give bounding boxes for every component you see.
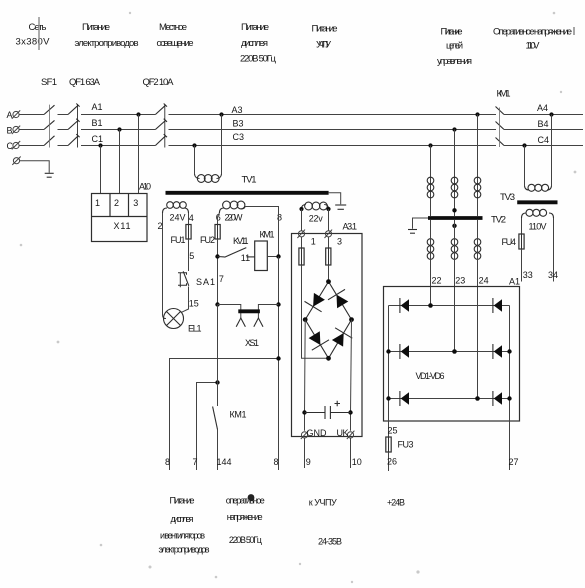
bridge node bottom [326,356,331,361]
wire 144 down [217,430,219,471]
node XS1 left [215,302,219,306]
diode VD5 [400,391,409,406]
node tap A to TV2 [475,112,479,116]
svg-text:КМ1: КМ1 [260,229,275,239]
fuse FU3 [386,437,391,452]
bridge diode bottom-right [332,333,344,347]
svg-text:220В 50Гц: 220В 50Гц [240,54,277,65]
node 22v right end [326,207,330,211]
wire core to ground [413,218,429,229]
svg-text:25: 25 [388,426,398,436]
TV2 secondary winding 2 [451,239,458,260]
transformer TV2 core [428,216,483,220]
svg-text:электроприводов: электроприводов [75,38,139,49]
TV1 secondary winding 220V [219,201,245,213]
wire FU1 to SA1, pin 5 [188,239,190,271]
wire A tap to TV2 primary 3 [477,115,479,217]
svg-text:B1: B1 [92,118,103,128]
svg-text:освещение: освещение [157,38,194,49]
wire PE to ground [20,161,49,173]
wire rectifier row 1 [389,305,510,307]
connector XS1 bar [238,309,260,313]
svg-text:5: 5 [189,251,194,261]
svg-text:A3.1: A3.1 [343,222,358,232]
TV2 secondary winding 1 [427,239,434,260]
svg-text:3: 3 [133,198,138,208]
TV2 secondary winding 3 [474,239,481,260]
svg-text:27: 27 [509,457,519,467]
diode VD4 [493,344,502,359]
node left bus row2 [386,349,390,353]
fuse (A3.1 left) [299,248,304,265]
wire plus bus (right) [509,306,511,471]
wire 110V right to pin 34 [553,218,555,282]
contactor coil KM1 [255,241,268,271]
diode VD1 [400,298,409,313]
svg-text:B3: B3 [233,118,244,128]
node 7 (FU2 branch / KV11) [215,254,219,258]
node cap right [348,410,352,414]
svg-text:Питание: Питание [170,496,195,506]
wire fuse to bridge bottom (AC) [302,265,329,358]
svg-text:Питание: Питание [241,22,269,33]
node row1 input (22) [428,303,433,308]
svg-text:33: 33 [523,270,533,280]
svg-text:6: 6 [216,213,221,223]
transformer TV3 primary winding [525,184,552,191]
wire 8-bus down [278,257,280,471]
svg-text:26: 26 [387,457,397,467]
wire A4 tap to TV3 primary right [551,115,553,187]
connector XS1 left socket fork [236,318,245,327]
wire 220V-out horizontal (to pin 8 bottom-left) [170,359,279,471]
connector XS1 right socket fork [254,318,263,327]
svg-text:B: B [7,126,13,136]
svg-text:7: 7 [219,274,224,284]
svg-text:7: 7 [193,457,198,467]
scan artifact vertical smudge over 3x380V [38,17,40,50]
wire B tap to TV2 primary 2 [454,130,456,217]
terminal UK of A3.1 [347,431,355,439]
svg-text:24V: 24V [170,213,186,223]
lamp EL1 [164,309,184,329]
svg-text:3x380V: 3x380V [16,37,51,48]
wire output 9 [304,438,306,468]
capacitor (smoothing) [305,406,351,419]
wire fuse to bridge top (AC) [328,265,330,282]
wire FU4 to pin 33 [521,249,523,282]
wire 220V left (pin6) to FU2 [218,213,220,225]
TV3 secondary winding 110V [522,209,554,218]
wire 22v right to terminal 3 [328,209,330,231]
node left bus row3 [386,396,390,400]
wire 24V left (pin2) down to lamp [163,213,167,319]
svg-text:Питание: Питание [441,27,463,38]
fuse FU4 [519,234,524,249]
svg-text:SF1: SF1 [41,77,57,88]
wire A1 tap down to X11 pin3 [138,115,140,194]
contactor KM1 main contacts (3-pole) [496,107,505,148]
svg-text:FU2: FU2 [200,235,215,245]
svg-text:GND: GND [307,428,328,438]
svg-text:управления: управления [437,56,472,67]
svg-text:КМ1: КМ1 [497,89,511,100]
svg-text:8: 8 [165,457,170,467]
node tap C4 to TV3 [522,143,526,147]
ink blob artifact on оперативное [248,494,255,501]
svg-text:Оперативное напряжение: Оперативное напряжение [493,27,572,38]
svg-text:FU1: FU1 [171,235,186,245]
node tap C to TV2 [428,143,432,147]
wire secondary 1 down (net 22) [430,220,432,306]
wire 110V left to FU4 [521,218,523,234]
bridge diode top-right [337,295,349,309]
svg-text:1: 1 [311,237,316,247]
node row3 input (24) [475,396,480,401]
fuse (A3.1 right) [326,248,331,265]
svg-text:TV1: TV1 [242,175,257,186]
svg-text:EL1: EL1 [188,324,202,334]
block A3.1 enclosure [292,234,363,437]
svg-text:VD1-VD6: VD1-VD6 [416,371,445,381]
svg-text:A10: A10 [139,182,151,192]
TV1 secondary winding 24V [163,202,189,213]
svg-text:24-35В: 24-35В [318,537,342,547]
switch SA1 [178,271,189,287]
wire phase C bus [20,145,584,147]
wire 24V right (pin4) to FU1 [188,213,190,225]
svg-text:11: 11 [241,253,250,263]
ground symbol (input) [45,173,54,177]
svg-text:8: 8 [274,457,279,467]
node tap B1 to X11 [117,127,121,131]
wire output 10 [350,438,352,468]
wire phase B bus [20,129,584,131]
wire 144 branch upper [217,305,219,407]
svg-text:C3: C3 [233,132,245,142]
input terminal phase A [12,110,20,118]
wire secondary 2 down (net 23) [454,220,456,352]
node tap A3 to TV1 primary [219,112,223,116]
svg-text:3: 3 [337,237,342,247]
wire A3 tap down to TV1 primary right [221,115,223,175]
wire phase A bus [20,114,584,116]
svg-text:FU3: FU3 [398,440,414,450]
TV1 secondary winding 22v [302,202,329,210]
node tap A4 to TV3 [549,112,553,116]
svg-text:1: 1 [95,198,100,208]
TV2 primary winding 2 [451,177,458,198]
node cap left [302,410,306,414]
svg-text:C1: C1 [92,134,104,144]
node XS1 right [276,302,280,306]
svg-text:напряжение: напряжение [227,512,263,522]
wire terminal1 to fuse [301,237,303,248]
wire terminal3 to fuse [328,237,330,248]
wire below FU3 [388,452,390,471]
input terminal PE/neutral [12,157,20,165]
svg-text:QF1 63A: QF1 63A [69,77,101,88]
ground symbol (TV1 core screen) [335,205,346,209]
transformer TV1 primary winding [195,174,222,182]
wire branch 7 (display feed) [197,383,218,471]
svg-text:34: 34 [548,270,558,280]
svg-text:TV3: TV3 [500,192,515,203]
TV2 primary winding 1 [427,177,434,198]
terminal 1 of A3.1 [297,230,305,238]
svg-text:дисплея: дисплея [241,38,268,49]
svg-text:Сеть: Сеть [29,22,47,33]
node tap B to TV2 [452,127,456,131]
node right bus row2 [507,349,511,353]
node branch at 382 [215,380,219,384]
diode VD3 [400,344,409,359]
svg-text:8: 8 [277,213,282,223]
svg-text:23: 23 [455,276,465,286]
bridge node top [326,279,331,284]
fuse FU1 [186,225,191,240]
svg-text:X11: X11 [114,221,131,231]
svg-text:A4: A4 [537,103,548,113]
svg-text:110V: 110V [529,222,547,232]
svg-text:УЧПУ: УЧПУ [316,40,332,51]
svg-text:QF2 10A: QF2 10A [143,77,175,88]
contactor KM1 auxiliary contact (bottom) [213,407,218,430]
svg-text:2: 2 [114,198,119,208]
bridge diode bottom-left [309,331,321,345]
relay contact KV11 [218,248,255,258]
svg-text:C4: C4 [538,135,550,145]
svg-text:Местное: Местное [159,22,187,33]
wire 220V right (pin8) across and down [245,207,279,257]
bridge rectifier diamond [305,282,351,359]
svg-text:110V: 110V [526,41,541,52]
svg-text:+24В: +24В [387,498,405,508]
svg-text:электроприводов: электроприводов [159,545,210,555]
svg-text:TV2: TV2 [491,215,506,226]
wire bridge plus to UK terminal [351,320,352,431]
node tap C3 to TV1 primary [192,143,196,147]
scan artifact mark right edge [573,27,575,35]
svg-text:UK: UK [337,428,349,438]
svg-text:Питание: Питание [82,22,110,33]
svg-text:10: 10 [352,457,362,467]
svg-text:A1: A1 [92,102,103,112]
svg-text:220W: 220W [225,213,244,223]
capacitor polarity + [335,401,341,406]
wire 22v left to terminal 1 [301,209,303,231]
bridge diode top-left [313,293,325,307]
svg-text:оперативное: оперативное [226,496,265,506]
svg-text:FU4: FU4 [502,237,517,247]
bridge node right (plus) [349,317,354,322]
terminal block X11 [92,194,148,242]
wire to XS1 left pole [218,305,241,319]
wire C tap to TV2 primary 1 [430,146,432,217]
transformer TV3 core [517,200,557,204]
svg-text:дисплея: дисплея [171,514,194,524]
svg-text:24: 24 [479,276,489,286]
wire core to chassis ground [329,193,341,205]
svg-text:9: 9 [306,457,311,467]
svg-text:4: 4 [189,213,194,223]
svg-text:A1: A1 [509,277,520,287]
diode VD2 [493,298,502,313]
svg-text:SA1: SA1 [196,277,215,287]
node 22v left end [299,207,303,211]
svg-text:и вентиляторов: и вентиляторов [160,531,205,541]
wire FU2 down to node 7 [217,239,219,305]
terminal 3 of A3.1 [325,230,333,238]
svg-text:цепей: цепей [446,41,463,52]
ground symbol (TV2) [408,230,417,234]
svg-text:Питание: Питание [312,24,338,35]
svg-text:22v: 22v [309,214,324,224]
svg-text:КМ1: КМ1 [230,410,247,420]
wire C4 tap to TV3 primary left [524,146,526,187]
wire C3 tap down to TV1 primary left [194,146,196,175]
svg-text:B4: B4 [538,119,549,129]
fuse FU2 [215,225,220,240]
wire to XS1 right pole [258,305,278,319]
terminal GND of A3.1 [301,431,309,439]
breaker QF2 (3-pole) [155,104,167,148]
wire minus bus (left) [388,306,390,438]
wire rectifier row 2 [389,351,510,353]
input terminal phase B [12,126,20,134]
svg-text:220В 50Гц: 220В 50Гц [229,535,262,545]
svg-text:15: 15 [189,299,199,309]
node right bus row3 [507,396,511,400]
node row2 input (23) [452,349,457,354]
wire B1 tap down to X11 pin2 [119,130,121,194]
block A1 enclosure [384,287,520,422]
svg-text:2: 2 [158,221,163,231]
TV2 primary winding 3 [474,177,481,198]
wire C1 tap down to X11 pin1 [100,146,102,194]
node tap A1 to X11 [136,112,140,116]
wire secondary 3 down (net 24) [477,220,479,399]
diode VD6 [493,391,502,406]
svg-text:A3: A3 [232,105,243,115]
transformer TV1 core [166,191,329,195]
wire rectifier row 3 [389,398,510,400]
node TV2 primary star point [452,208,456,212]
bridge node left (minus) [303,317,308,322]
wire KM1 coil to node 8-bus [267,256,278,258]
wire bridge minus to GND terminal [304,320,307,431]
svg-text:к УЧПУ: к УЧПУ [309,498,337,508]
node tap C1 to X11 [98,143,102,147]
switch SF1 (3-pole) [44,105,55,148]
breaker QF1 (3-pole) [68,104,80,148]
svg-text:144: 144 [217,457,232,467]
input terminal phase C [12,141,20,149]
node 8-bus bottom branch [276,356,280,360]
wire SA1 to lamp, pin 15 [181,287,188,313]
node on 8-bus at KM1 coil [276,254,280,258]
svg-text:KV11: KV11 [233,236,249,246]
svg-text:XS1: XS1 [245,338,259,348]
node TV2 secondary star point [452,224,456,228]
svg-text:22: 22 [432,276,442,286]
